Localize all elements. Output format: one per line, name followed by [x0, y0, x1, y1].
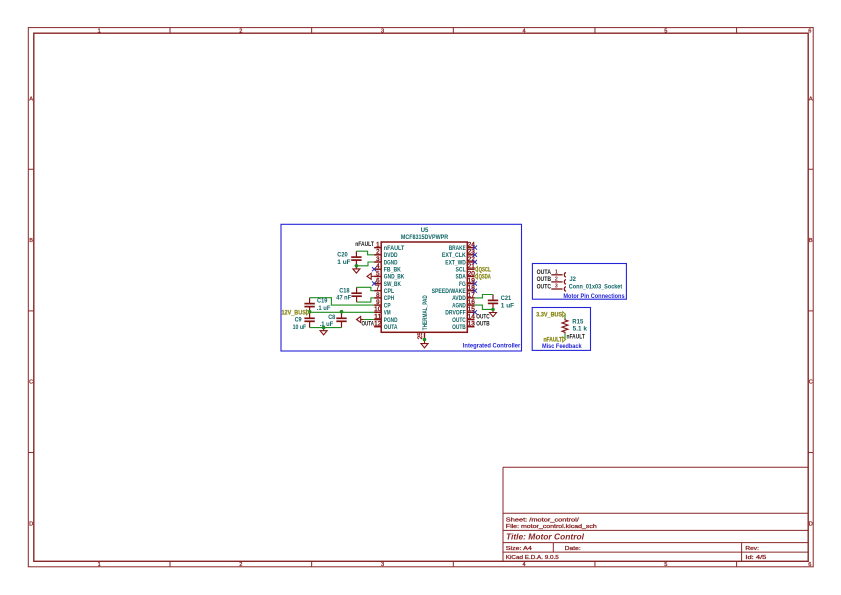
global label QSDA	[475, 273, 492, 280]
svg-text:SCL: SCL	[456, 266, 466, 273]
U5 pin 10 VM	[374, 306, 390, 316]
capacitor C20	[351, 251, 361, 266]
svg-text:.1 uF: .1 uF	[320, 322, 334, 328]
svg-text:Sheet: /motor_control/: Sheet: /motor_control/	[506, 517, 579, 523]
wire C19 top to pin 9 CP	[310, 298, 375, 305]
svg-text:OUTB: OUTB	[537, 276, 552, 283]
svg-text:THERMAL_PAD: THERMAL_PAD	[422, 295, 429, 330]
svg-text:8: 8	[376, 292, 380, 299]
svg-text:AGND: AGND	[452, 302, 466, 309]
wire R15 to nFAULT labels	[564, 334, 566, 340]
svg-text:nFAULT: nFAULT	[544, 337, 563, 344]
U5 pin 5 GND_BK	[374, 270, 404, 280]
wire pin 16 AGND to C21 bottom	[475, 305, 494, 309]
svg-text:B: B	[809, 238, 813, 244]
svg-text:3: 3	[555, 284, 558, 290]
svg-text:QSDA: QSDA	[479, 273, 492, 280]
svg-text:C: C	[29, 380, 33, 386]
svg-text:9: 9	[376, 299, 380, 306]
svg-text:R15: R15	[572, 320, 584, 326]
capacitor C9	[304, 312, 314, 328]
svg-text:16: 16	[468, 299, 476, 306]
U5 pin 12 OUTA	[374, 321, 398, 331]
svg-text:A: A	[29, 96, 33, 102]
svg-text:1: 1	[376, 242, 380, 249]
svg-text:3: 3	[381, 562, 384, 568]
svg-text:10 uF: 10 uF	[293, 325, 307, 331]
no-connect pin 6	[372, 281, 376, 285]
svg-text:DGND: DGND	[384, 259, 398, 266]
svg-text:Conn_01x03_Socket: Conn_01x03_Socket	[569, 284, 622, 290]
svg-text:6: 6	[376, 277, 380, 284]
svg-text:25: 25	[417, 332, 424, 340]
svg-text:AVDD: AVDD	[452, 295, 466, 302]
svg-text:FB_BK: FB_BK	[384, 266, 401, 273]
svg-text:A: A	[809, 96, 813, 102]
U5 pin 19 FG	[459, 277, 475, 287]
svg-text:nFAULT: nFAULT	[355, 241, 374, 248]
svg-text:SPEED/WAKE: SPEED/WAKE	[432, 288, 467, 295]
ground at thermal pad	[421, 340, 428, 348]
svg-text:J2: J2	[569, 277, 576, 283]
svg-text:U5: U5	[421, 227, 429, 234]
ground at pin PGND	[357, 317, 364, 323]
svg-text:CPL: CPL	[384, 288, 394, 295]
U5 pin 3 DGND	[374, 256, 398, 266]
svg-text:OUTA: OUTA	[362, 320, 375, 327]
wire C20 bottom to pin 3 DGND	[356, 262, 374, 266]
svg-text:C8: C8	[328, 315, 336, 321]
svg-text:DRVOFF: DRVOFF	[445, 310, 466, 317]
svg-text:DVDD: DVDD	[384, 252, 398, 259]
svg-text:GND_BK: GND_BK	[384, 274, 405, 281]
svg-text:4: 4	[523, 562, 526, 568]
svg-text:1: 1	[98, 562, 101, 568]
ground at C8/C9	[320, 328, 327, 335]
svg-text:Date:: Date:	[565, 546, 581, 552]
svg-text:6: 6	[808, 28, 811, 34]
capacitor C8	[336, 312, 346, 328]
svg-text:2: 2	[239, 562, 242, 568]
wire C20 top to pin 2 DVDD	[356, 251, 374, 255]
svg-text:4: 4	[376, 263, 380, 270]
svg-text:1 uF: 1 uF	[337, 260, 351, 266]
svg-text:Rev:: Rev:	[745, 546, 759, 552]
wire 12V_BUS to pin 10 VM	[309, 311, 374, 313]
svg-text:.1 uF: .1 uF	[317, 306, 331, 312]
svg-text:Size: A4: Size: A4	[506, 546, 533, 552]
svg-text:EXT_CLK: EXT_CLK	[442, 252, 466, 259]
wire 3.3V_BUS to R15	[564, 314, 566, 318]
note box Integrated Controller	[281, 224, 522, 351]
junction 12V_BUS	[308, 310, 312, 314]
capacitor C18	[351, 287, 361, 302]
wire ground bus under C9 C8	[310, 327, 342, 329]
ground at pin GND_BK	[367, 273, 374, 279]
no-connect pin 19	[473, 281, 477, 285]
resistor R15	[562, 319, 568, 334]
capacitor C21	[488, 295, 498, 310]
U5 pin 2 DVDD	[374, 249, 398, 259]
svg-text:C18: C18	[339, 288, 350, 294]
U5 pin 9 CP	[374, 299, 391, 309]
global label QSCL	[475, 266, 491, 273]
no-connect pin 24	[473, 246, 477, 250]
junction C8 top	[340, 310, 344, 314]
svg-text:C19: C19	[317, 299, 328, 305]
svg-text:47 nF: 47 nF	[336, 296, 351, 302]
svg-text:1 uF: 1 uF	[501, 304, 515, 310]
svg-text:Id: 4/5: Id: 4/5	[745, 555, 766, 561]
svg-text:OUTB: OUTB	[476, 320, 490, 327]
U5 pin 4 FB_BK	[374, 263, 401, 273]
U5 pin 24 BRAKE	[449, 242, 476, 252]
svg-text:2: 2	[555, 277, 558, 283]
svg-text:6: 6	[808, 562, 811, 568]
svg-text:10: 10	[374, 306, 382, 313]
svg-text:File: motor_control.kicad_sch: File: motor_control.kicad_sch	[506, 524, 597, 530]
svg-text:2: 2	[376, 249, 380, 256]
svg-text:SW_BK: SW_BK	[384, 281, 401, 288]
U5 pin 23 EXT_CLK	[442, 249, 475, 259]
no-connect pin 15	[473, 310, 477, 314]
svg-text:1: 1	[98, 28, 101, 34]
svg-text:Misc Feedback: Misc Feedback	[542, 343, 582, 350]
svg-text:CP: CP	[384, 302, 391, 309]
svg-text:D: D	[809, 521, 813, 527]
svg-text:3: 3	[381, 28, 384, 34]
note box Misc Feedback	[532, 308, 590, 351]
U5 pin 16 AGND	[452, 299, 475, 309]
no-connect pin 4	[372, 267, 376, 271]
wire C18 top to pin 7 CPL	[357, 287, 375, 290]
svg-text:3.3V_BUS: 3.3V_BUS	[536, 311, 562, 318]
U5 pin 6 SW_BK	[374, 277, 401, 287]
svg-text:2: 2	[239, 28, 242, 34]
U5 pin 15 DRVOFF	[445, 306, 475, 316]
wire pin 11 PGND to ground	[364, 319, 375, 321]
junction gnd bus	[322, 326, 326, 330]
svg-text:KiCad E.D.A. 9.0.5: KiCad E.D.A. 9.0.5	[506, 555, 559, 561]
U5 pin 25 THERMAL_PAD	[417, 295, 429, 340]
junction C20 gnd	[355, 264, 359, 268]
svg-text:EXT_WD: EXT_WD	[445, 259, 466, 266]
svg-text:B: B	[29, 238, 33, 244]
svg-text:CPH: CPH	[384, 295, 395, 302]
svg-text:BRAKE: BRAKE	[449, 245, 467, 252]
U5 pin 20 SDA	[456, 270, 476, 280]
no-connect pin 22	[473, 260, 477, 264]
U5 pin 18 SPEED/WAKE	[432, 285, 476, 295]
wire C18 bottom to pin 8 CPH	[357, 298, 375, 302]
junction C21 gnd	[491, 308, 495, 312]
connector J2 Conn_01x03_Socket	[551, 273, 566, 292]
svg-text:SDA: SDA	[456, 274, 467, 281]
no-connect pin 23	[473, 253, 477, 257]
U5 pin 7 CPL	[374, 285, 394, 295]
svg-text:OUTA: OUTA	[384, 324, 398, 331]
svg-text:PGND: PGND	[384, 317, 398, 324]
svg-text:OUTC: OUTC	[476, 313, 490, 320]
svg-text:Integrated Controller: Integrated Controller	[463, 343, 521, 350]
global label 3.3V_BUS	[536, 311, 565, 318]
svg-text:QSCL: QSCL	[479, 266, 491, 273]
svg-text:Motor Pin Connections: Motor Pin Connections	[563, 293, 625, 300]
no-connect pin 18	[473, 289, 477, 293]
U5 pin 13 OUTB	[452, 321, 475, 331]
U5 pin 8 CPH	[374, 292, 394, 302]
svg-text:5.1 k: 5.1 k	[573, 326, 588, 332]
svg-text:OUTB: OUTB	[452, 324, 466, 331]
svg-text:5: 5	[664, 562, 667, 568]
svg-text:C20: C20	[337, 253, 348, 259]
global label 12V_BUS	[282, 309, 310, 316]
svg-text:MCF8315DVPWPR: MCF8315DVPWPR	[401, 234, 449, 241]
svg-text:1: 1	[555, 270, 558, 276]
svg-text:3: 3	[376, 256, 380, 263]
svg-text:VM: VM	[384, 310, 391, 317]
svg-text:12: 12	[374, 321, 382, 328]
ground at C21	[490, 309, 497, 316]
svg-text:4: 4	[523, 28, 526, 34]
svg-text:12V_BUS: 12V_BUS	[282, 309, 306, 316]
U5 pin 22 EXT_WD	[445, 256, 475, 266]
svg-text:13: 13	[468, 321, 476, 328]
capacitor C19	[304, 298, 314, 312]
junction thermal gnd	[423, 338, 427, 342]
IC U5 MCF8315DVPWPR body	[381, 227, 467, 332]
U5 pin 1 nFAULT	[374, 242, 404, 252]
svg-text:nFAULT: nFAULT	[567, 333, 585, 340]
svg-text:Title: Motor Control: Title: Motor Control	[506, 533, 585, 542]
U5 pin 21 SCL	[456, 263, 476, 273]
U5 pin 11 PGND	[374, 313, 398, 323]
svg-text:17: 17	[468, 292, 476, 299]
wire pin 17 AVDD to C21 top	[475, 295, 494, 298]
svg-text:5: 5	[376, 270, 380, 277]
svg-text:11: 11	[374, 313, 382, 320]
U5 pin 14 OUTC	[452, 313, 475, 323]
title block	[503, 467, 808, 561]
svg-text:C: C	[809, 380, 813, 386]
svg-text:nFAULT: nFAULT	[384, 245, 405, 252]
svg-text:7: 7	[376, 285, 380, 292]
svg-text:D: D	[29, 521, 33, 527]
svg-text:FG: FG	[459, 281, 466, 288]
svg-text:14: 14	[468, 313, 476, 320]
svg-text:5: 5	[664, 28, 667, 34]
svg-text:OUTC: OUTC	[537, 283, 552, 290]
svg-text:OUTC: OUTC	[452, 317, 466, 324]
svg-text:C9: C9	[295, 318, 303, 324]
svg-text:OUTA: OUTA	[537, 269, 552, 276]
svg-text:C21: C21	[501, 296, 512, 302]
ground at C20	[353, 266, 360, 273]
note box Motor Pin Connections	[532, 264, 626, 301]
U5 pin 17 AVDD	[452, 292, 475, 302]
global label nFAULT	[544, 337, 566, 344]
